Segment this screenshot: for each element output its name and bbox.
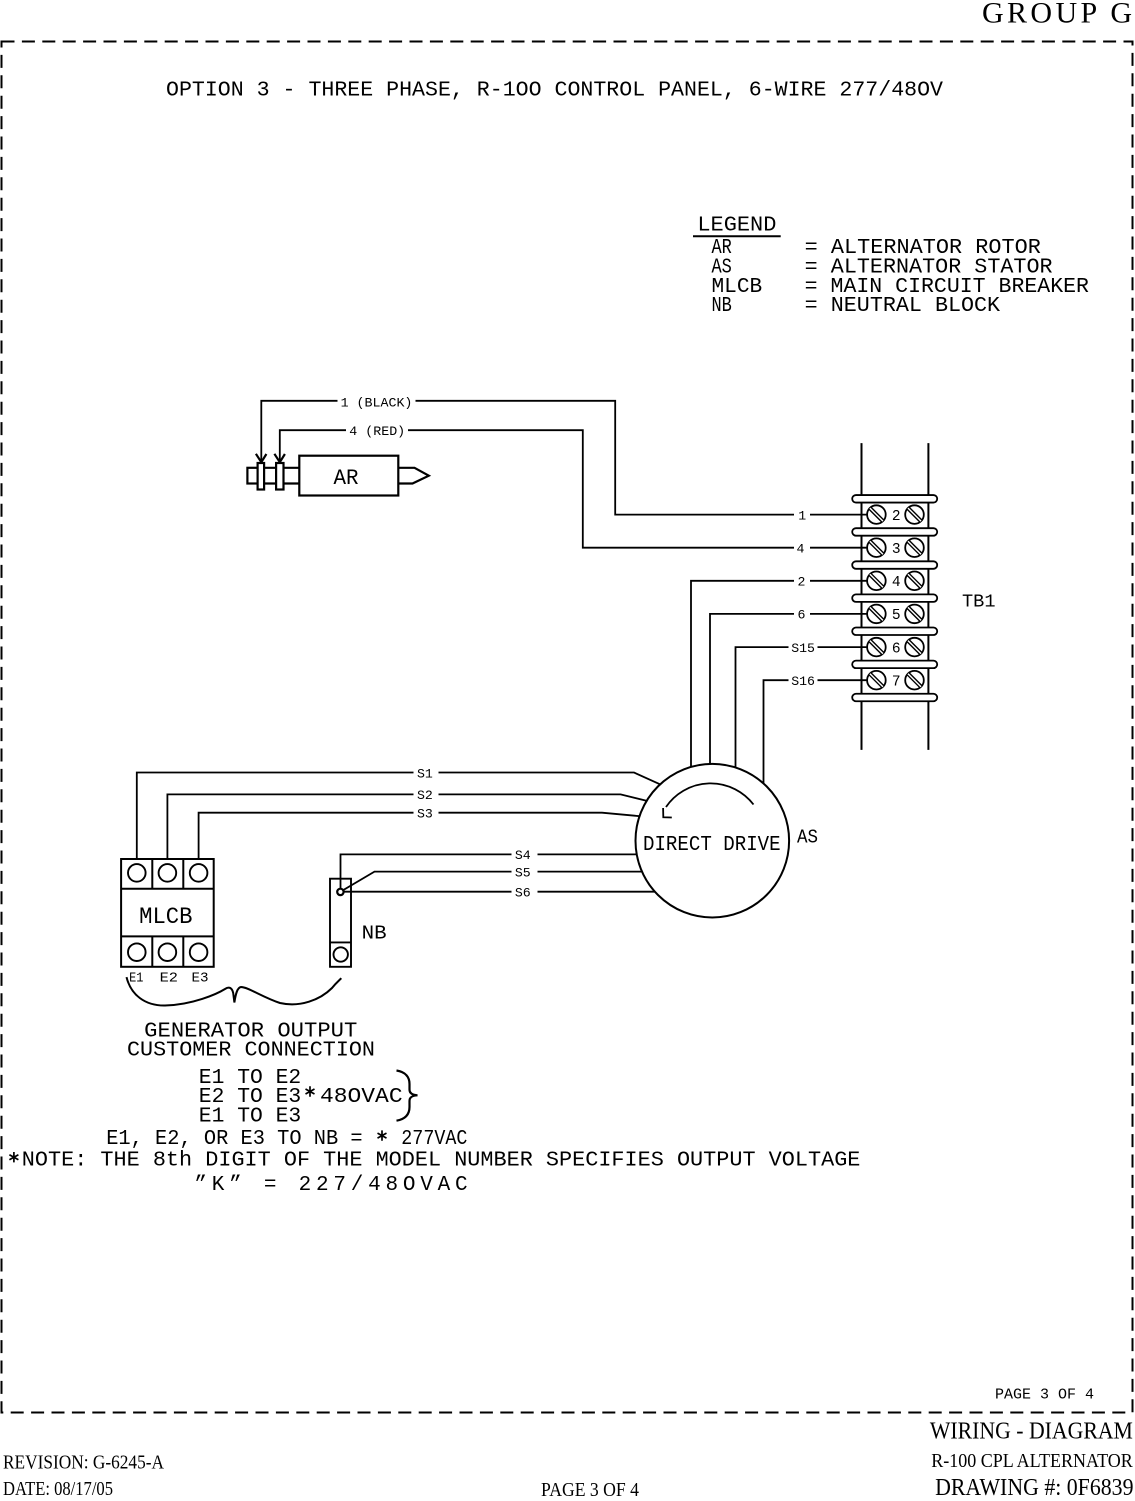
TB1 separator bars [852,495,937,701]
svg-text:E3: E3 [192,971,209,987]
svg-text:R-100 CPL ALTERNATOR: R-100 CPL ALTERNATOR [931,1450,1133,1472]
label S3 [414,807,439,819]
wire label S16 [789,674,818,686]
main circuit breaker MLCB [121,859,214,967]
alternator rotor AR [247,456,428,496]
svg-text:MLCB: MLCB [139,904,192,930]
svg-text:1: 1 [798,508,806,523]
svg-text:E1 TO E3: E1 TO E3 [199,1106,301,1129]
svg-text:5: 5 [892,608,901,624]
svg-text:CUSTOMER CONNECTION: CUSTOMER CONNECTION [127,1040,375,1063]
TB1 terminal row 7 [867,671,924,691]
svg-text:4 (RED): 4 (RED) [349,424,405,439]
NB terminal [334,947,348,961]
label 4 (RED) [346,424,408,436]
TB1 left rail [861,443,863,750]
TB1 terminal row 2 [867,505,924,525]
grouping brace } [397,1071,418,1121]
svg-text:NB: NB [362,923,387,945]
MLCB bottom terminals [128,943,146,961]
asterisk star 277VAC [378,1130,387,1140]
AR shaft lines [264,468,299,484]
customer connection brace squiggle [127,977,342,1005]
svg-text:REVISION: G-6245-A: REVISION: G-6245-A [3,1453,164,1474]
svg-text:NOTE: THE 8th DIGIT OF THE MOD: NOTE: THE 8th DIGIT OF THE MODEL NUMBER … [22,1150,861,1173]
svg-text:6: 6 [798,608,806,623]
MLCB bottom row dividers [121,936,214,966]
AR spade terminal [398,468,429,484]
svg-text:S6: S6 [515,886,531,901]
svg-text:7: 7 [892,674,901,690]
svg-text:S16: S16 [791,674,815,689]
svg-text:S5: S5 [515,865,531,880]
wire S15: TB1 terminal 6 to stator [736,647,868,771]
svg-text:OPTION 3 - THREE PHASE, R-1OO: OPTION 3 - THREE PHASE, R-1OO CONTROL PA… [166,79,943,102]
arrow into slip ring 1 [256,454,267,462]
wire S5: NB junction to stator [341,872,644,892]
svg-text:DRAWING #: 0F6839: DRAWING #: 0F6839 [935,1475,1133,1501]
svg-text:S1: S1 [417,766,433,781]
MLCB top terminals [128,864,146,882]
AR slip ring 2 [276,463,283,490]
MLCB top row dividers [121,859,214,889]
rotation arrow arc [666,783,754,807]
wire label 2 [794,575,810,587]
svg-text:NB: NB [712,295,732,318]
TB1 terminal row 3 [867,538,924,558]
asterisk star NOTE [9,1152,18,1162]
svg-text:LEGEND: LEGEND [697,215,776,238]
wire S16: TB1 terminal 7 to stator [764,680,868,787]
svg-text:4: 4 [892,575,901,591]
junction ring at NB [337,889,343,895]
wire 1 (BLACK): AR slip ring to TB1 terminal 2 [261,401,867,515]
wire label 1 [794,509,810,521]
svg-text:3: 3 [892,542,901,558]
legend underline [693,235,781,237]
wire 6: TB1 terminal 5 to stator [710,614,867,768]
svg-text:6: 6 [892,641,901,657]
wire S1: MLCB pole 1 to stator [137,773,662,865]
TB1 terminal row 6 [867,638,924,658]
NB body [330,879,351,967]
asterisk star 480VAC [306,1086,315,1096]
svg-text:E1, E2, OR E3 TO NB =: E1, E2, OR E3 TO NB = [106,1128,362,1151]
svg-text:S3: S3 [417,807,433,822]
wire 2: TB1 terminal 4 to stator [691,581,867,770]
alternator stator AS circle [636,764,790,918]
neutral block NB [330,879,351,967]
svg-text:4: 4 [797,542,805,557]
svg-text:48OVAC: 48OVAC [320,1086,403,1109]
svg-text:S15: S15 [791,641,815,656]
wire label S15 [789,641,818,653]
terminal block TB1 [862,443,929,750]
svg-text:= NEUTRAL BLOCK: = NEUTRAL BLOCK [805,295,1001,318]
TB1 right rail [927,443,929,750]
svg-text:WIRING - DIAGRAM: WIRING - DIAGRAM [930,1418,1133,1444]
svg-text:DATE: 08/17/05: DATE: 08/17/05 [3,1479,113,1500]
svg-text:TB1: TB1 [962,592,996,613]
wire S4: NB junction to stator [341,854,638,891]
svg-text:DIRECT DRIVE: DIRECT DRIVE [643,834,781,857]
wire label 6 [794,608,810,620]
TB1 terminal row 4 [867,572,924,592]
AR shaft end cap [247,468,257,484]
AR slip ring 1 [258,463,265,490]
svg-text:2: 2 [892,509,901,525]
svg-text:277VAC: 277VAC [401,1128,467,1151]
svg-text:PAGE 3 OF 4: PAGE 3 OF 4 [541,1480,639,1501]
MLCB body [121,859,214,967]
TB1 terminal row 5 [867,605,924,624]
arrow into slip ring 2 [274,454,285,462]
svg-text:2: 2 [798,575,806,590]
label 1 (BLACK) [338,395,416,407]
wire label 4 [794,542,810,554]
svg-text:S4: S4 [515,848,531,863]
svg-text:S2: S2 [417,788,433,803]
AR body box [299,456,398,496]
svg-text:PAGE 3 OF 4: PAGE 3 OF 4 [995,1387,1094,1404]
label S5 [512,865,538,877]
svg-text:AS: AS [797,826,818,848]
svg-text:E2: E2 [160,971,178,987]
label S1 [414,766,439,778]
svg-text:AR: AR [334,466,359,491]
svg-text:1 (BLACK): 1 (BLACK) [341,395,413,410]
svg-text:E1: E1 [129,971,143,987]
label S4 [512,848,538,860]
wire S2: MLCB pole 2 to stator [167,794,649,864]
wire S6: NB junction to stator [341,891,657,893]
NB divider [330,941,351,943]
label S6 [512,886,538,898]
wire 4 (RED): AR slip ring to TB1 terminal 3 [280,430,867,548]
wire S3: MLCB pole 3 to stator [199,813,641,865]
rotation arrowhead [663,808,672,818]
label S2 [414,788,439,800]
